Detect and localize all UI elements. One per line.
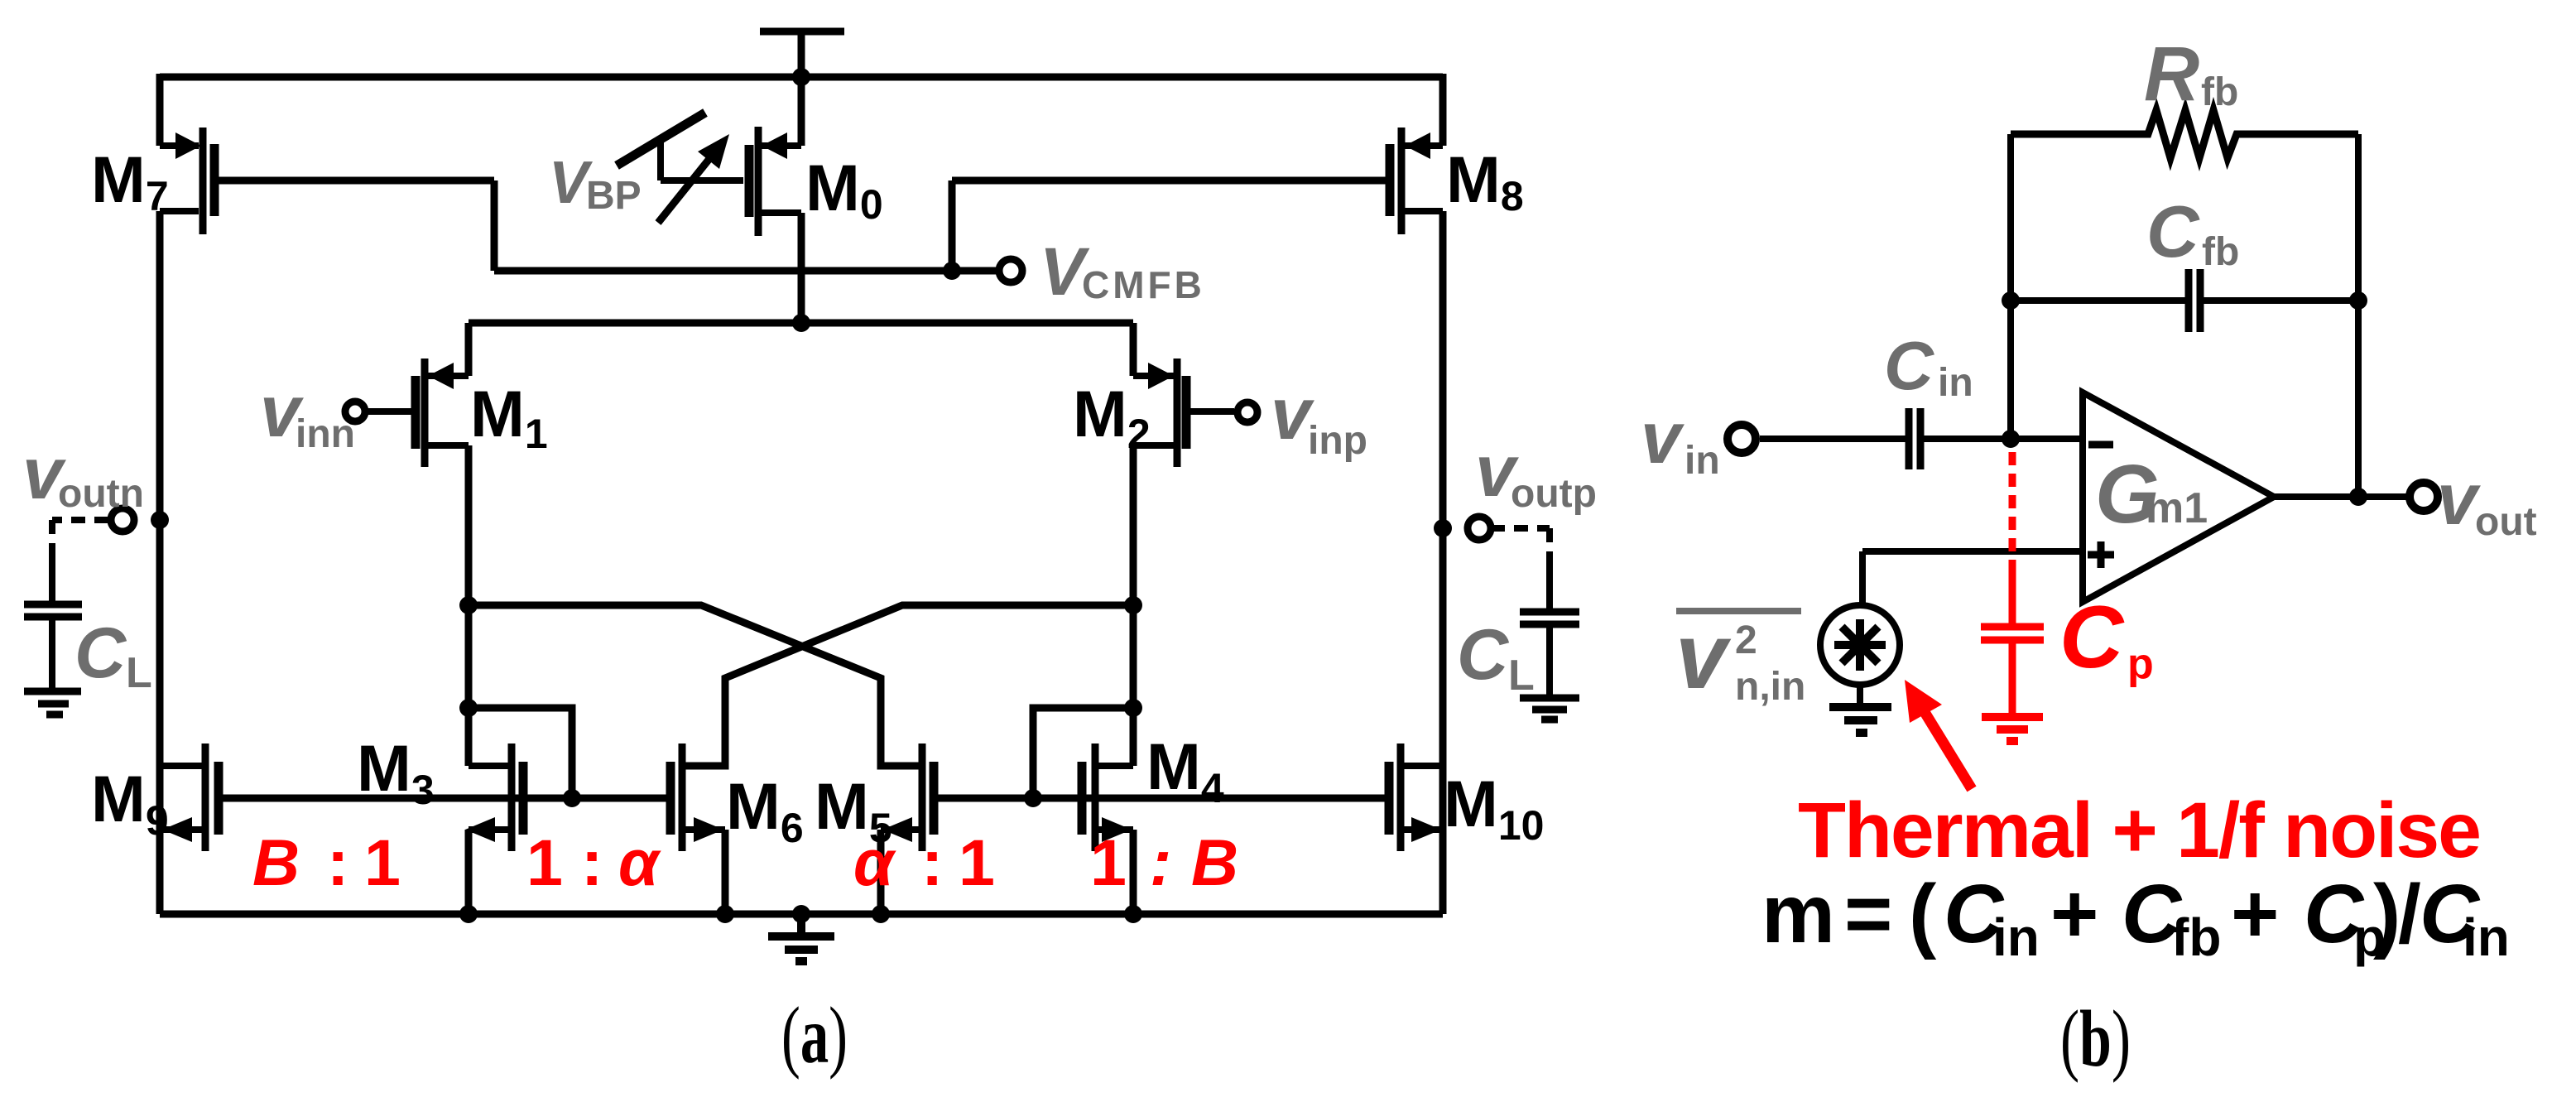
wire left gate rail (M9-M3-M6 gates) <box>223 795 666 802</box>
ground symbol (noise source) <box>1829 707 1891 733</box>
wire feedback riser (inverting node to Rfb/Cfb) <box>2007 134 2014 439</box>
wire ground rail <box>160 911 1443 918</box>
transistor M3 (NMOS diode-connected left) <box>465 743 523 851</box>
svg-text:fb: fb <box>2171 907 2221 967</box>
node M4 source at ground rail <box>1124 905 1142 923</box>
wire right output branch (M8 drain to M10 drain to ground rail) <box>1439 211 1447 914</box>
node left node junction at diode link <box>459 699 478 717</box>
noise source asterisk <box>1834 619 1886 671</box>
transistor M1 (PMOS input, vinn) <box>368 359 469 467</box>
wire M1 source riser <box>465 323 473 376</box>
svg-text:m: m <box>1761 868 1835 960</box>
node left node junction at cross-couple line <box>459 596 478 614</box>
wire tail rail (M1/M2 sources) <box>469 320 1133 327</box>
node voutp junction <box>1434 519 1452 537</box>
wire vin to Cin <box>1760 436 1906 442</box>
wire left VDD drop to M7 source <box>156 74 164 146</box>
node voutp terminal circle <box>1468 517 1491 540</box>
svg-text:B:1: B:1 <box>252 825 401 899</box>
transistor M6 (NMOS cross-coupled) <box>670 743 725 851</box>
node voutn junction <box>151 511 169 529</box>
wire Cfb branch right <box>2204 297 2358 304</box>
node inverting input junction <box>2002 430 2020 448</box>
wire left node vertical (M1 drain to M3) <box>465 445 473 766</box>
power supply VDD symbol <box>760 31 844 77</box>
svg-text:outp: outp <box>1511 472 1597 516</box>
node VCMFB terminal circle <box>999 259 1022 282</box>
annotation arrow (noise pointer, red) <box>1925 712 1972 789</box>
svg-text:p: p <box>2127 640 2154 688</box>
wire VCMFB riser to M8 gate lead <box>952 180 1386 271</box>
wire right gate rail (M5-M4-M10 gates) <box>938 795 1385 802</box>
wire VDD top rail <box>160 74 1443 81</box>
node M6 source at ground rail <box>716 905 734 923</box>
svg-text:v: v <box>1675 604 1732 708</box>
svg-text:/: / <box>2398 868 2421 960</box>
svg-text:(a): (a) <box>781 991 848 1080</box>
wire M4 source drop to ground <box>1130 830 1137 914</box>
node vout terminal circle <box>2410 483 2438 511</box>
svg-text:in: in <box>1684 439 1720 483</box>
svg-text:=: = <box>1844 868 1892 960</box>
svg-text:C: C <box>1884 327 1934 404</box>
node Cfb right junction <box>2349 291 2367 310</box>
wire M0 drain stem to tail node <box>798 213 805 323</box>
node output junction <box>2349 488 2367 506</box>
wire Cfb branch left <box>2011 297 2185 304</box>
svg-text:v: v <box>1641 397 1684 479</box>
wire Cin to inverting node <box>1924 436 2083 442</box>
wire left diode link (M3 drain to gate rail) <box>469 708 572 798</box>
svg-text:R: R <box>2144 31 2199 117</box>
wire M5 source drop <box>877 830 885 914</box>
wire right VDD drop to M8 source <box>1439 74 1447 146</box>
svg-text:m1: m1 <box>2146 484 2208 532</box>
svg-text:(: ( <box>1909 868 1937 960</box>
svg-text:in: in <box>1992 907 2040 967</box>
svg-text:in: in <box>2463 907 2510 967</box>
wire M2 source riser <box>1130 323 1137 376</box>
capacitor Cin <box>1909 408 1920 469</box>
ground symbol (tail sources) <box>768 914 834 961</box>
node ground junction at ground symbol <box>792 905 810 923</box>
svg-text:n,in: n,in <box>1735 665 1805 709</box>
svg-text:outn: outn <box>58 472 144 516</box>
wire M0 source stem <box>798 77 805 146</box>
transistor M5 (NMOS cross-coupled) <box>881 743 934 851</box>
node right node junction at diode link <box>1124 699 1142 717</box>
capacitor Cp (parasitic, red) <box>1981 627 2044 640</box>
svg-text:(b): (b) <box>2060 994 2131 1084</box>
node left gate rail junction <box>563 789 581 807</box>
capacitor CL left with dashed tap and ground <box>24 520 108 715</box>
svg-text:2: 2 <box>1735 618 1757 662</box>
capacitor CL right with dashed tap and ground <box>1491 528 1579 719</box>
node right gate rail junction <box>1024 789 1042 807</box>
capacitor Cfb <box>2189 269 2200 332</box>
wire cross-couple right node to M6 drain <box>685 605 1133 766</box>
node voutn terminal circle <box>111 508 134 532</box>
wire M6 source drop <box>722 830 729 914</box>
transistor M10 (NMOS output mirror right) <box>1389 743 1443 851</box>
node M5 source at ground rail <box>872 905 890 923</box>
wire noise source to ground <box>1857 685 1863 703</box>
resistor Rfb with feedback top run <box>2011 110 2358 158</box>
ground symbol (Cp, red) <box>1982 717 2043 741</box>
wire feedback right rail (output to Rfb) <box>2355 134 2362 497</box>
svg-text:in: in <box>1938 361 1973 405</box>
node right node junction at cross-couple line <box>1124 596 1142 614</box>
node vin terminal circle <box>1728 425 1756 453</box>
svg-text:): ) <box>2373 868 2401 960</box>
svg-text:1:α: 1:α <box>526 825 661 899</box>
svg-text:fb: fb <box>2201 70 2238 114</box>
wire noninverting input <box>1862 548 2083 555</box>
wire VCMFB net: M7 gate lead, drop, run to terminal <box>219 180 997 271</box>
wire left output branch (M7 drain to M9 drain to ground rail) <box>156 211 164 914</box>
wire right diode link (M4 drain to gate rail) <box>1033 708 1133 798</box>
wire Cp to ground <box>2009 643 2016 713</box>
node vinn terminal circle <box>345 402 365 421</box>
node VDD junction at M0 source <box>792 68 810 86</box>
svg-text:inn: inn <box>296 412 355 456</box>
VBP variable-bias arrow symbol at M0 gate <box>617 113 743 223</box>
op-amp Gm1 triangle <box>2083 392 2274 602</box>
op-amp plus input marker <box>2088 541 2114 568</box>
wire cross-couple left node to M5 drain <box>469 605 919 766</box>
label noise gain formula <box>1761 868 2510 967</box>
svg-text:CMFB: CMFB <box>1082 263 1205 306</box>
transistor M9 (NMOS output mirror left) <box>160 743 219 851</box>
node VCMFB junction <box>943 262 961 280</box>
svg-text:Thermal + 1/f noise: Thermal + 1/f noise <box>1798 787 2482 874</box>
node Cfb left junction <box>2002 291 2020 310</box>
svg-text:C: C <box>2059 587 2125 686</box>
wire right node vertical (M2 drain to M4) <box>1130 445 1137 766</box>
node tail junction at M0 drain <box>792 314 810 332</box>
svg-text:C: C <box>1457 615 1510 695</box>
svg-text:C: C <box>74 614 127 693</box>
transistor M0 (PMOS tail current source) <box>749 127 801 236</box>
transistor M2 (PMOS input, vinp) <box>1133 359 1234 467</box>
noise source circle <box>1820 605 1900 685</box>
transistor M7 (PMOS) <box>160 128 214 234</box>
svg-text:1:B: 1:B <box>1090 825 1238 899</box>
node vinp terminal circle <box>1238 402 1257 422</box>
wire op-amp output <box>2274 493 2407 500</box>
svg-text:out: out <box>2475 500 2537 544</box>
node M3 source at ground rail <box>459 905 478 923</box>
svg-text:α:1: α:1 <box>853 825 995 899</box>
transistor M4 (NMOS diode-connected right) <box>1082 743 1133 851</box>
svg-text:C: C <box>2146 190 2200 272</box>
label noise PSD v2n,in with overbar <box>1676 608 1801 614</box>
transistor M8 (PMOS) <box>1390 128 1443 234</box>
op-amp minus input marker <box>2088 441 2113 449</box>
svg-text:L: L <box>126 649 152 697</box>
wire M3 source drop to ground <box>465 830 473 914</box>
svg-text:fb: fb <box>2202 230 2239 274</box>
wire parasitic Cp dashed riser <box>2009 452 2016 570</box>
svg-text:L: L <box>1508 652 1535 700</box>
svg-text:+: + <box>2231 868 2279 960</box>
svg-text:BP: BP <box>586 174 642 218</box>
annotation arrow head (red) <box>1905 680 1942 723</box>
svg-text:inp: inp <box>1308 419 1367 463</box>
wire noise source riser <box>1859 551 1866 605</box>
svg-text:+: + <box>2050 868 2098 960</box>
